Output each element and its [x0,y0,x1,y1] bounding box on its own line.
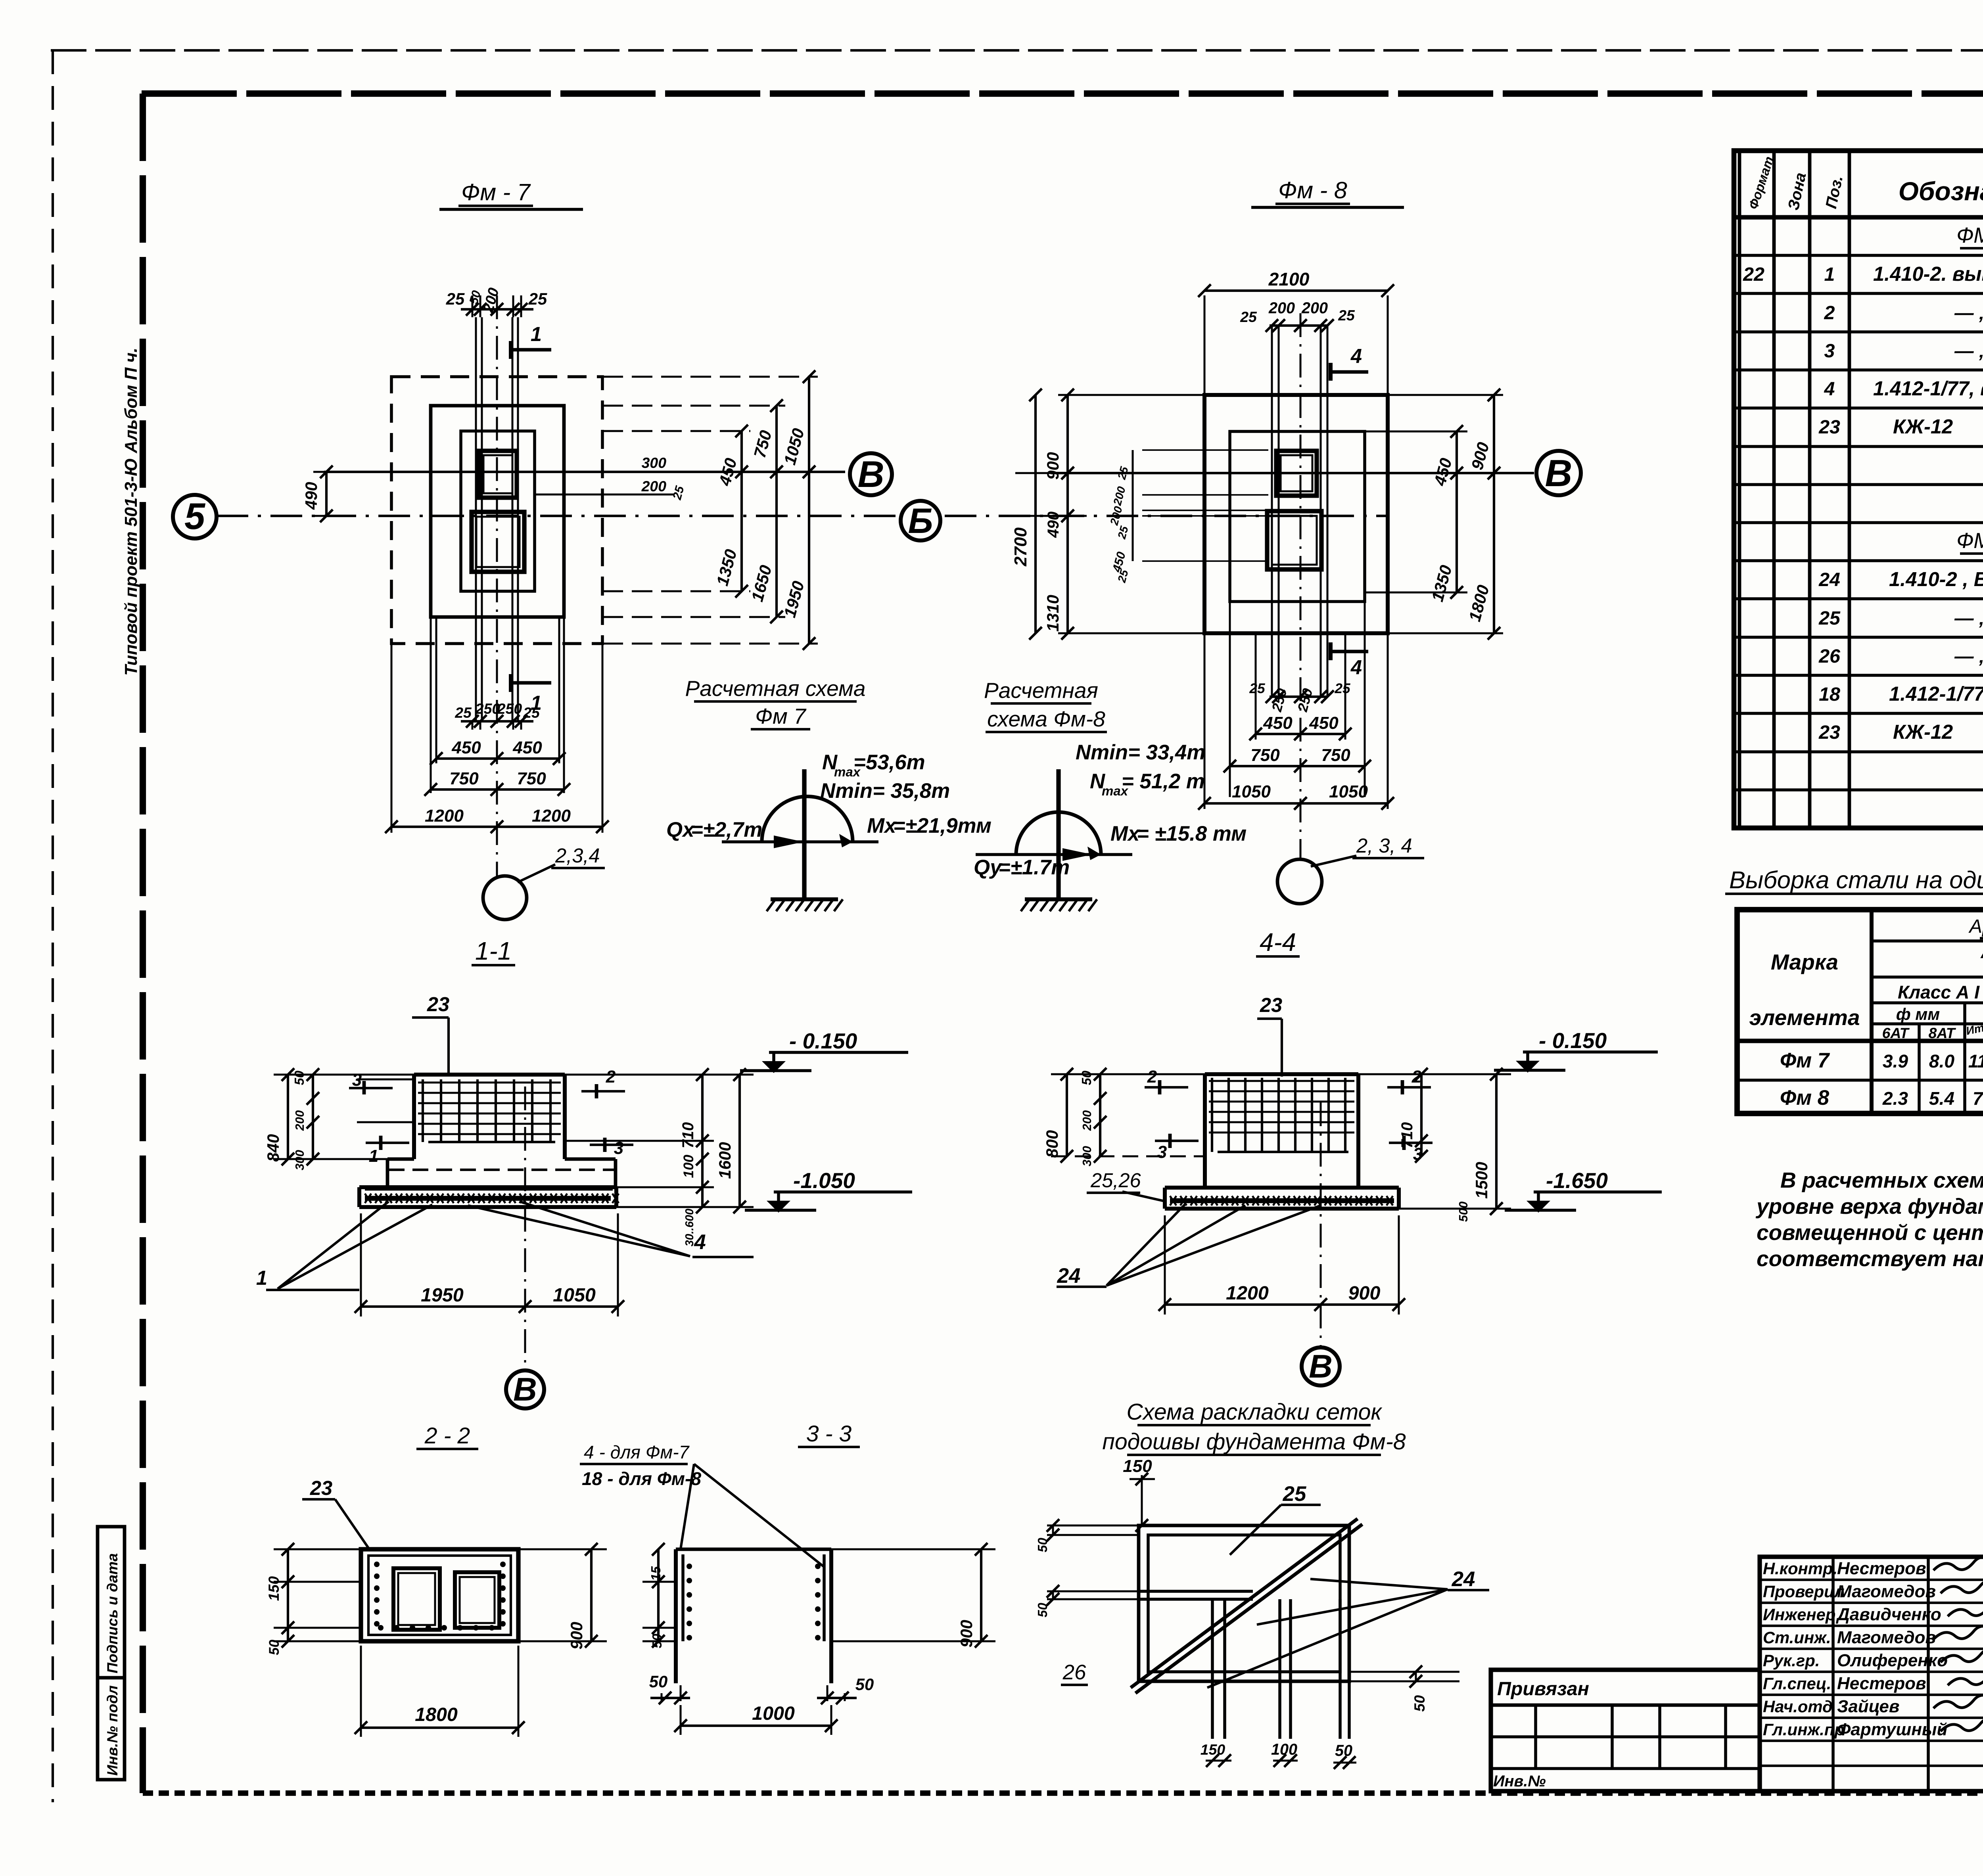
svg-text:18 - для Фм-8: 18 - для Фм-8 [582,1468,701,1489]
svg-text:Нестеров: Нестеров [1837,1559,1926,1578]
svg-text:Итого: Итого [1965,1018,1983,1038]
svg-text:500: 500 [1456,1201,1470,1222]
svg-text:25: 25 [1338,307,1355,324]
svg-text:22: 22 [1743,264,1764,285]
svg-text:25: 25 [446,289,465,308]
svg-text:Арматурные изделия: Арматурные изделия [1968,916,1983,937]
svg-text:Зайцев: Зайцев [1837,1697,1899,1716]
svg-text:900: 900 [1348,1282,1381,1304]
svg-text:450: 450 [451,738,481,757]
svg-text:1350: 1350 [713,547,740,588]
svg-text:В: В [513,1371,537,1408]
svg-text:1050: 1050 [780,426,807,467]
svg-text:1.410-2. вып.1: 1.410-2. вып.1 [1873,263,1983,285]
svg-text:В расчетных схемах указаны: В расчетных схемах указаны нормативные н… [1780,1168,1983,1192]
svg-text:1: 1 [256,1267,267,1289]
svg-text:Расчетная: Расчетная [984,678,1098,703]
svg-text:элемента: элемента [1749,1005,1860,1030]
svg-text:Марка: Марка [1771,950,1838,974]
svg-text:250: 250 [475,700,501,717]
svg-text:Гл.инж.пр: Гл.инж.пр [1763,1720,1845,1739]
svg-text:8АТ: 8АТ [1929,1025,1956,1041]
svg-text:Фм 8: Фм 8 [1780,1086,1830,1110]
svg-text:- 0.150: - 0.150 [1539,1028,1607,1053]
svg-text:900: 900 [567,1622,586,1650]
svg-text:4: 4 [1350,656,1362,678]
svg-text:7.7: 7.7 [1973,1088,1983,1109]
svg-text:Проверил: Проверил [1763,1582,1845,1601]
svg-text:6АТ: 6АТ [1882,1025,1910,1041]
svg-text:1950: 1950 [780,579,807,619]
svg-text:-1.650: -1.650 [1546,1168,1608,1193]
svg-text:200: 200 [641,478,667,494]
svg-text:В: В [857,454,884,495]
svg-text:490: 490 [302,482,320,510]
svg-text:25: 25 [1115,524,1131,540]
svg-text:25: 25 [528,289,547,308]
svg-text:1050: 1050 [553,1284,596,1306]
svg-text:300: 300 [642,454,667,471]
svg-text:1-1: 1-1 [475,937,512,965]
svg-text:23: 23 [427,993,449,1016]
svg-text:ФМ-7: ФМ-7 [1956,223,1983,247]
svg-text:- 0.150: - 0.150 [789,1029,857,1053]
svg-text:1050: 1050 [1329,782,1368,801]
svg-text:200: 200 [1301,299,1328,317]
svg-text:25: 25 [523,704,540,721]
svg-text:1200: 1200 [1226,1282,1269,1304]
svg-text:4 - для Фм-7: 4 - для Фм-7 [584,1442,690,1462]
svg-text:26: 26 [1062,1661,1086,1684]
svg-text:23: 23 [1818,722,1840,743]
svg-text:соответствует направлению ус: соответствует направлению усилий вдоль ц… [1757,1246,1983,1271]
svg-text:Выборка стали на один элемент,: Выборка стали на один элемент, кг [1729,866,1983,894]
svg-text:4-4: 4-4 [1260,928,1296,956]
svg-text:Магомедов: Магомедов [1837,1628,1936,1647]
svg-text:450: 450 [715,456,740,488]
svg-text:= ±15.8 тм: = ±15.8 тм [1137,822,1247,845]
svg-text:Класс А I: Класс А I [1898,982,1980,1002]
svg-text:200: 200 [1108,505,1125,527]
svg-text:Расчетная схема: Расчетная схема [685,676,865,701]
svg-text:=±2,7т: =±2,7т [691,818,762,841]
svg-text:26: 26 [1818,646,1841,667]
svg-text:750: 750 [750,428,775,460]
svg-text:3: 3 [1157,1142,1167,1162]
svg-text:Инв.№: Инв.№ [1493,1773,1546,1790]
svg-text:250: 250 [497,700,522,717]
svg-text:2: 2 [606,1067,616,1087]
svg-text:1050: 1050 [1232,782,1271,801]
svg-text:1.412-1/77, вып.3: 1.412-1/77, вып.3 [1873,377,1983,400]
svg-text:Схема раскладки сеток: Схема раскладки сеток [1127,1399,1383,1425]
svg-text:Привязан: Привязан [1497,1678,1589,1700]
svg-text:Обозначение: Обозначение [1899,177,1983,206]
svg-text:450: 450 [1430,456,1456,488]
svg-text:50: 50 [1079,1070,1094,1085]
svg-text:3.9: 3.9 [1883,1051,1908,1071]
svg-text:11.9: 11.9 [1968,1051,1983,1071]
svg-text:100: 100 [1271,1741,1297,1758]
svg-text:5: 5 [184,496,205,537]
svg-text:2: 2 [1147,1067,1157,1087]
svg-text:25: 25 [455,704,472,721]
svg-text:Арматурная сталь: Арматурная сталь [1980,943,1983,962]
svg-text:Фм - 8: Фм - 8 [1278,177,1347,203]
svg-text:100: 100 [681,1155,696,1178]
svg-text:Подпись и дата: Подпись и дата [104,1553,121,1673]
svg-text:300: 300 [293,1150,307,1170]
svg-text:840: 840 [264,1134,282,1162]
svg-text:23: 23 [1818,416,1840,438]
svg-text:Магомедов: Магомедов [1837,1582,1936,1601]
svg-text:2, 3, 4: 2, 3, 4 [1356,834,1412,857]
svg-text:1.412-1/77, Вып. 3: 1.412-1/77, Вып. 3 [1889,682,1983,705]
svg-text:1.410-2 , Вып. 1: 1.410-2 , Вып. 1 [1889,568,1983,590]
svg-text:Фартушный: Фартушный [1837,1720,1947,1739]
svg-text:Олиференко: Олиференко [1837,1651,1948,1670]
svg-text:Типовой проект 501-3-Ю Ал: Типовой проект 501-3-Ю Альбом П ч. [121,348,141,676]
svg-text:Nmin= 35,8т: Nmin= 35,8т [820,779,950,803]
svg-text:1800: 1800 [415,1704,458,1725]
svg-text:25: 25 [670,484,687,502]
svg-text:1200: 1200 [532,806,571,826]
svg-text:1: 1 [369,1146,378,1166]
svg-text:=53,6т: =53,6т [853,751,925,774]
svg-text:Нач.отд: Нач.отд [1763,1697,1833,1716]
svg-text:150: 150 [1201,1741,1225,1758]
svg-text:=±1.7m: =±1.7m [998,856,1070,879]
svg-text:2,3,4: 2,3,4 [555,844,600,867]
svg-text:Фм - 7: Фм - 7 [461,179,531,205]
svg-text:1600: 1600 [715,1142,734,1179]
svg-text:200: 200 [1268,299,1295,317]
svg-text:2 - 2: 2 - 2 [424,1423,470,1449]
svg-text:1: 1 [531,323,542,345]
svg-text:750: 750 [1250,745,1280,765]
svg-text:24: 24 [1452,1567,1475,1591]
svg-text:Давидченко: Давидченко [1835,1605,1941,1624]
svg-text:800: 800 [1043,1130,1061,1158]
svg-text:Инв.№ подл: Инв.№ подл [104,1685,121,1776]
svg-text:50: 50 [1035,1602,1050,1617]
svg-text:— „ —: — „ — [1954,646,1983,667]
svg-text:24: 24 [1818,569,1840,590]
svg-text:4: 4 [694,1230,706,1254]
svg-text:50: 50 [1411,1695,1428,1712]
svg-text:450: 450 [1263,713,1293,733]
svg-text:Рук.гр.: Рук.гр. [1763,1651,1820,1670]
svg-text:=±21,9тм: =±21,9тм [893,814,991,837]
svg-text:25: 25 [1115,465,1131,481]
svg-text:— „ —: — „ — [1954,302,1983,324]
svg-text:25: 25 [1249,681,1265,696]
svg-text:50: 50 [649,1672,668,1691]
svg-text:1500: 1500 [1472,1162,1491,1199]
svg-text:23: 23 [1260,994,1282,1016]
svg-text:450: 450 [512,738,542,757]
svg-text:— „ —: — „ — [1954,340,1983,362]
svg-text:Мх: Мх [1110,822,1141,845]
svg-text:2: 2 [1824,302,1835,324]
svg-text:уровне верха фундамента, пр: уровне верха фундамента, приложенные в у… [1755,1194,1983,1219]
svg-text:1: 1 [1824,264,1835,285]
svg-text:900: 900 [957,1620,976,1648]
svg-text:1800: 1800 [1465,583,1492,623]
svg-text:3 - 3: 3 - 3 [806,1421,852,1447]
svg-text:1950: 1950 [421,1284,464,1306]
svg-text:50: 50 [855,1675,874,1694]
svg-text:200: 200 [1111,485,1128,507]
svg-text:Поз.: Поз. [1822,174,1846,210]
svg-text:4: 4 [1350,345,1362,367]
svg-text:= 51,2 т: = 51,2 т [1122,770,1205,793]
svg-text:КЖ-12: КЖ-12 [1893,415,1953,438]
svg-text:750: 750 [1321,745,1350,765]
svg-text:Зона: Зона [1785,171,1810,212]
svg-text:совмещенной с центром подош: совмещенной с центром подошвы фундамента… [1757,1220,1983,1245]
svg-text:450: 450 [1309,713,1339,733]
svg-text:5.4: 5.4 [1929,1088,1954,1109]
svg-text:Фм 7: Фм 7 [755,704,807,728]
svg-text:— „ —: — „ — [1954,607,1983,629]
svg-text:4: 4 [1824,378,1835,400]
svg-text:25: 25 [1334,681,1350,696]
svg-text:подошвы фундамента Фм-8: подошвы фундамента Фм-8 [1102,1429,1406,1454]
svg-text:24: 24 [1057,1264,1081,1288]
svg-text:25,26: 25,26 [1090,1169,1141,1192]
svg-text:Nmin= 33,4т: Nmin= 33,4т [1076,741,1205,764]
svg-text:15: 15 [648,1566,663,1581]
svg-text:Гл.спец.: Гл.спец. [1763,1674,1831,1693]
svg-text:2.3: 2.3 [1882,1088,1908,1109]
svg-text:Ст.инж.: Ст.инж. [1763,1628,1831,1647]
svg-text:3: 3 [352,1070,362,1090]
svg-text:150: 150 [265,1576,282,1601]
svg-text:710: 710 [679,1122,697,1148]
svg-text:3: 3 [1824,340,1835,362]
svg-text:750: 750 [449,769,479,788]
svg-text:900: 900 [1467,440,1492,472]
svg-text:Нестеров: Нестеров [1837,1674,1926,1693]
svg-text:200: 200 [293,1110,307,1131]
svg-text:КЖ-12: КЖ-12 [1893,721,1953,743]
svg-text:Б: Б [908,501,933,540]
svg-text:1650: 1650 [748,563,775,604]
svg-text:50: 50 [1335,1742,1352,1759]
svg-text:1200: 1200 [425,806,464,826]
svg-text:ф мм: ф мм [1896,1005,1940,1023]
svg-text:Формат: Формат [1745,155,1776,211]
svg-text:710: 710 [1398,1122,1416,1148]
svg-text:750: 750 [517,769,546,788]
svg-text:8.0: 8.0 [1929,1051,1955,1071]
svg-text:В: В [1545,452,1573,494]
svg-text:Мх: Мх [867,814,897,837]
svg-text:50: 50 [292,1070,307,1085]
svg-text:200: 200 [1080,1110,1094,1131]
svg-text:Фм 7: Фм 7 [1780,1049,1830,1072]
svg-text:схема Фм-8: схема Фм-8 [987,707,1105,731]
svg-text:900: 900 [1043,452,1062,480]
svg-text:18: 18 [1819,684,1840,705]
svg-text:2100: 2100 [1268,269,1310,289]
svg-text:В: В [1309,1348,1333,1385]
svg-text:Инженер: Инженер [1763,1605,1835,1624]
svg-text:-1.050: -1.050 [793,1168,855,1193]
svg-text:23: 23 [310,1477,332,1499]
svg-text:250: 250 [1295,687,1316,714]
svg-text:50: 50 [1035,1537,1050,1552]
svg-text:ФМ-8: ФМ-8 [1956,528,1983,553]
svg-text:2700: 2700 [1011,527,1030,566]
svg-text:Н.контр.: Н.контр. [1763,1559,1837,1578]
svg-text:1310: 1310 [1043,595,1062,632]
svg-text:25: 25 [1283,1482,1306,1506]
svg-text:25: 25 [1818,607,1841,629]
svg-text:25: 25 [1240,309,1257,325]
svg-text:1000: 1000 [752,1703,795,1724]
